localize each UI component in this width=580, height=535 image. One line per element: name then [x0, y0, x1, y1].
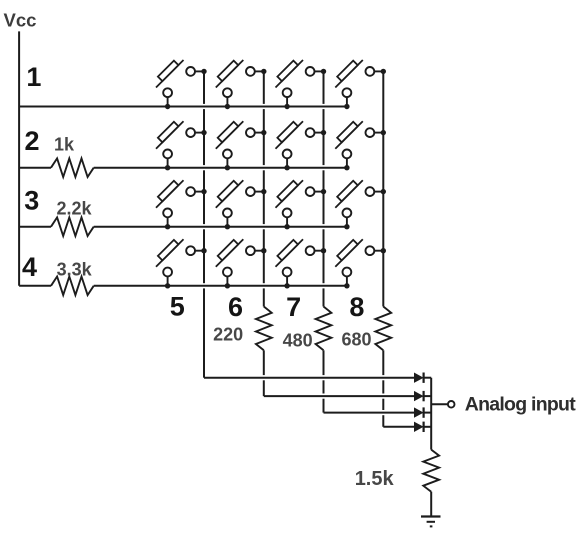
pushbutton switch SW15 (row 4, col 7) — [276, 239, 327, 288]
svg-text:6: 6 — [228, 292, 243, 322]
wire column 5 vertical — [203, 71, 205, 377]
value label 220 — [213, 324, 243, 344]
wire Vcc vertical — [18, 31, 20, 285]
wire row 2 left segment — [19, 167, 51, 169]
pushbutton switch SW6 (row 2, col 6) — [216, 121, 267, 170]
wire column 5 to diode D1 — [204, 377, 414, 379]
wire row 4 left segment — [19, 285, 51, 287]
node label 5 — [170, 292, 185, 322]
node label 4 — [22, 252, 37, 282]
svg-text:Analog input: Analog input — [465, 394, 576, 416]
node label 6 — [228, 292, 243, 322]
svg-text:1k: 1k — [54, 135, 75, 155]
svg-text:3.3k: 3.3k — [57, 259, 93, 279]
wire column 7 to diode D3 — [324, 412, 415, 414]
pushbutton switch SW9 (row 3, col 5) — [156, 180, 207, 229]
pushbutton switch SW12 (row 3, col 8) — [335, 180, 386, 229]
svg-text:Vcc: Vcc — [4, 9, 37, 30]
pushbutton switch SW2 (row 1, col 6) — [216, 60, 267, 109]
value label 480 — [283, 330, 313, 350]
node label 8 — [349, 292, 364, 322]
resistor 1k (row 2) — [51, 158, 94, 177]
svg-text:220: 220 — [213, 324, 243, 344]
resistor 1.5k — [423, 450, 439, 492]
wire common cathode vertical — [430, 378, 432, 450]
pushbutton switch SW14 (row 4, col 6) — [216, 239, 267, 288]
pushbutton switch SW3 (row 1, col 7) — [276, 60, 327, 109]
pushbutton switch SW16 (row 4, col 8) — [335, 239, 386, 288]
value label 1.5k — [355, 468, 395, 490]
svg-text:4: 4 — [22, 252, 37, 282]
ground — [421, 517, 441, 527]
diode D4 — [414, 422, 431, 432]
value label 2.2k — [57, 198, 93, 218]
value label 680 — [342, 330, 372, 350]
wire resistor to ground — [430, 492, 432, 517]
svg-text:3: 3 — [24, 186, 39, 216]
svg-text:1.5k: 1.5k — [355, 468, 395, 490]
resistor 2.2k (row 3) — [51, 217, 94, 236]
svg-text:2: 2 — [24, 126, 39, 156]
node label 7 — [286, 292, 301, 322]
svg-text:1: 1 — [26, 62, 41, 92]
svg-text:5: 5 — [170, 292, 185, 322]
resistor 3.3k (row 4) — [51, 277, 94, 296]
wire row 1 horizontal — [19, 106, 347, 108]
diode D3 — [414, 407, 431, 417]
node label 1 — [26, 62, 41, 92]
wire row 3 right segment — [94, 226, 347, 228]
wire analog input stub — [431, 403, 447, 405]
pushbutton switch SW4 (row 1, col 8) — [335, 60, 386, 109]
label Analog input — [465, 394, 576, 416]
value label 3.3k — [57, 259, 93, 279]
svg-text:480: 480 — [283, 330, 313, 350]
value label 1k — [54, 135, 75, 155]
wire row 2 right segment — [94, 167, 347, 169]
pushbutton switch SW11 (row 3, col 7) — [276, 180, 327, 229]
pushbutton switch SW5 (row 2, col 5) — [156, 121, 207, 170]
power label Vcc — [4, 9, 37, 30]
terminal analog input — [448, 401, 455, 408]
wire column 6 to diode D2 — [264, 395, 414, 397]
pushbutton switch SW13 (row 4, col 5) — [156, 239, 207, 288]
wire row 3 left segment — [19, 226, 51, 228]
pushbutton switch SW1 (row 1, col 5) — [156, 60, 207, 109]
node label 2 — [24, 126, 39, 156]
pushbutton switch SW10 (row 3, col 6) — [216, 180, 267, 229]
pushbutton switch SW7 (row 2, col 7) — [276, 121, 327, 170]
diode D1 — [414, 373, 431, 383]
wire column 8 vertical (with resistor) — [375, 71, 391, 426]
svg-text:8: 8 — [349, 292, 364, 322]
diode D2 — [414, 391, 431, 401]
wire column 8 to diode D4 — [383, 426, 414, 428]
pushbutton switch SW8 (row 2, col 8) — [335, 121, 386, 170]
svg-text:2.2k: 2.2k — [57, 198, 93, 218]
node label 3 — [24, 186, 39, 216]
wire column 6 vertical (with resistor) — [256, 71, 272, 396]
wire row 4 right segment — [94, 285, 347, 287]
wire column 7 vertical (with resistor) — [316, 71, 332, 412]
svg-text:680: 680 — [342, 330, 372, 350]
svg-text:7: 7 — [286, 292, 301, 322]
